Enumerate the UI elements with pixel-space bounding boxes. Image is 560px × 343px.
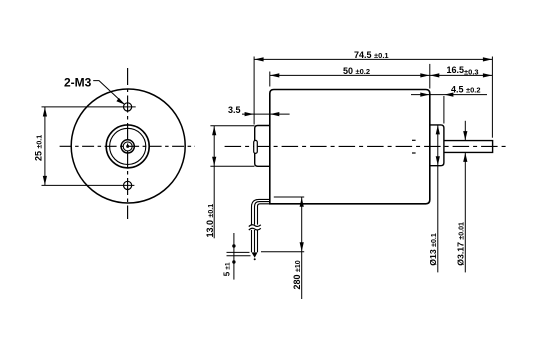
- mounting hole bottom: [124, 181, 132, 189]
- front flange: [430, 125, 444, 166]
- arrow 74.5 right: [483, 57, 492, 61]
- front view shaft center dot: [126, 145, 129, 148]
- front view boss inner circle: [110, 128, 146, 164]
- leader 2-M3: [93, 81, 124, 105]
- arrow 25 bottom: [43, 176, 47, 185]
- arrow 280 top: [300, 198, 304, 207]
- arrow 74.5 left: [254, 57, 263, 61]
- rear boss: [255, 126, 270, 167]
- tick bare tip: [227, 255, 251, 257]
- ext line body right: [429, 64, 431, 89]
- dimension line 4.5: [411, 94, 487, 96]
- wire stripped tip: [252, 252, 258, 257]
- ext line rear boss left: [253, 57, 255, 125]
- front view horizontal centerline: [60, 145, 195, 147]
- arrow dia13 top: [436, 125, 440, 134]
- svg-text:2-M3: 2-M3: [64, 75, 92, 89]
- ext line dia317 lower: [464, 153, 466, 273]
- dimension line 50 and 16.5: [270, 74, 493, 76]
- arrow 13.0 top: [212, 126, 216, 135]
- dot 5 bottom: [232, 260, 235, 263]
- arrow 50 left: [270, 73, 279, 77]
- lead wires horizontal run: [252, 199, 271, 252]
- dimension line 5: [233, 233, 235, 280]
- svg-text:4.5 ±0.2: 4.5 ±0.2: [451, 84, 481, 94]
- wire break symbol: [249, 225, 261, 230]
- side view centerline: [225, 145, 508, 147]
- dot 5 top: [232, 244, 235, 247]
- arrow 25 top: [43, 107, 47, 116]
- ext line boss top: [210, 125, 254, 127]
- ext line flange right: [443, 96, 445, 124]
- dimension line 280: [301, 197, 303, 299]
- mounting hole top: [124, 103, 132, 111]
- dimension line 13.0: [213, 126, 215, 239]
- extension line top hole: [42, 106, 136, 108]
- arrow 4.5 left: [420, 93, 429, 97]
- dimension line 74.5: [254, 58, 492, 60]
- ext line wire exit: [274, 196, 304, 198]
- front view outer circle: [71, 89, 185, 203]
- ext line wire tip: [261, 251, 304, 253]
- svg-text:74.5 ±0.1: 74.5 ±0.1: [354, 50, 389, 60]
- lead wires below break: [251, 230, 253, 252]
- arrow 3.5 left: [245, 112, 254, 116]
- tick insulation end: [227, 251, 250, 253]
- arrow 50 right: [420, 73, 429, 77]
- ext line body left: [269, 72, 271, 87]
- arrow dia13 bottom: [436, 156, 440, 165]
- ext line dia13: [437, 125, 439, 273]
- front view boss outer circle: [106, 125, 149, 168]
- arrow dia317 top: [463, 131, 467, 140]
- arrow 4.5 right: [444, 93, 453, 97]
- ext line boss bottom: [210, 165, 254, 167]
- hidden shaft dash top: [412, 139, 416, 141]
- dimension line 3.5: [242, 113, 290, 115]
- svg-text:3.5: 3.5: [228, 105, 241, 115]
- front view bearing circle: [121, 140, 134, 153]
- rear bearing bump: [254, 140, 258, 153]
- extension line bottom hole: [42, 184, 135, 186]
- svg-text:16.5±0.3: 16.5±0.3: [447, 65, 479, 77]
- ext line dia317 upper: [464, 121, 466, 141]
- hidden shaft dash bottom: [412, 152, 416, 154]
- dimension line 25: [44, 107, 46, 185]
- wire tip dot: [254, 258, 256, 260]
- leader arrowhead 2-M3: [116, 98, 124, 105]
- front view bearing inner circle: [123, 142, 132, 151]
- ext line shaft tip: [491, 57, 493, 138]
- front view vertical centerline: [127, 68, 129, 219]
- arrow dia317 bottom: [463, 153, 467, 162]
- svg-text:5 ±1: 5 ±1: [223, 262, 232, 276]
- arrow 280 bottom: [300, 242, 304, 251]
- svg-text:50 ±0.2: 50 ±0.2: [343, 66, 370, 76]
- arrow 16.5 left: [430, 73, 439, 77]
- arrow 3.5 right: [270, 112, 279, 116]
- shaft: [444, 141, 493, 153]
- motor body: [270, 90, 430, 204]
- arrow 16.5 right: [483, 73, 492, 77]
- arrow 13.0 bottom: [212, 157, 216, 166]
